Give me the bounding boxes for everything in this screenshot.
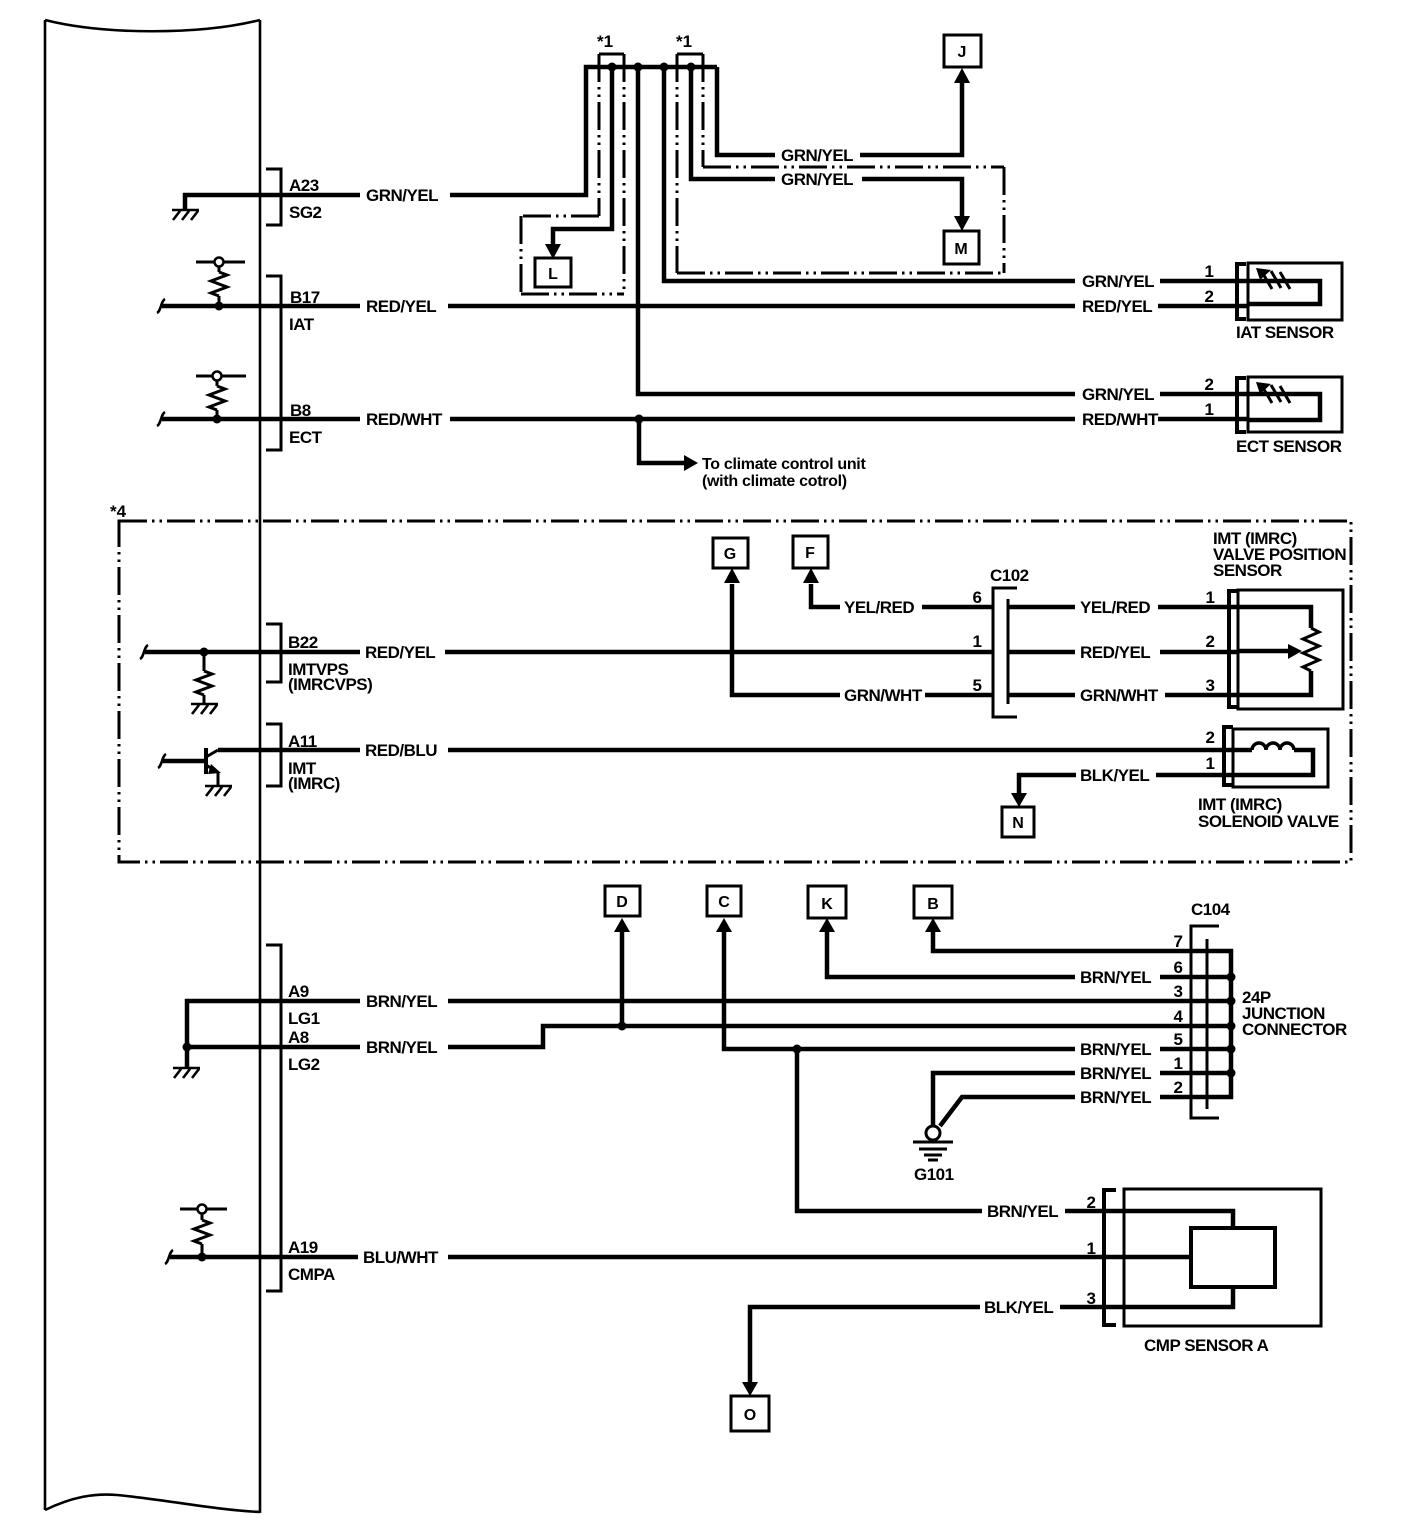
- wire A8 BRN/YEL to C104 pin 4: [281, 1026, 1207, 1047]
- wire branch GRN/YEL to ECT sensor pin 2: [638, 67, 1248, 394]
- pull-up resistor (B17): [218, 267, 221, 306]
- svg-text:BRN/YEL: BRN/YEL: [1080, 1064, 1151, 1083]
- connector bracket B17/B8: [266, 276, 281, 450]
- svg-text:RED/YEL: RED/YEL: [365, 643, 435, 662]
- VPS wiper arrow: [1238, 649, 1288, 654]
- svg-text:C: C: [718, 894, 730, 911]
- svg-text:GRN/YEL: GRN/YEL: [781, 146, 853, 165]
- pull-up node circle (A19): [198, 1205, 207, 1214]
- svg-text:O: O: [744, 1407, 756, 1424]
- connector bracket A9/LG1/A8/LG2/A19/CMPA: [266, 945, 281, 1291]
- svg-text:1: 1: [1206, 754, 1215, 773]
- svg-text:2: 2: [1206, 728, 1215, 747]
- wire BLK/YEL to N: [1019, 775, 1233, 794]
- svg-text:L: L: [548, 266, 558, 283]
- stub hook (B8): [157, 412, 165, 426]
- svg-text:GRN/WHT: GRN/WHT: [844, 686, 923, 705]
- svg-text:3: 3: [1174, 982, 1183, 1001]
- stub hook (A19): [165, 1250, 173, 1264]
- junction dot (A19): [198, 1253, 207, 1262]
- IMT (IMRC) valve position sensor body: [1238, 590, 1343, 709]
- ground (B22): [191, 704, 218, 714]
- 5V pull-up rail (B8): [196, 375, 246, 378]
- svg-text:BRN/YEL: BRN/YEL: [987, 1202, 1058, 1221]
- arrow into O: [742, 1382, 758, 1396]
- CMP sensor connector bracket: [1104, 1190, 1116, 1325]
- svg-text:BRN/YEL: BRN/YEL: [1080, 968, 1151, 987]
- svg-text:K: K: [821, 896, 833, 913]
- solenoid coil: [1233, 750, 1313, 775]
- svg-text:A8: A8: [288, 1028, 309, 1047]
- wire from D to A8 splice: [620, 932, 625, 1026]
- svg-text:F: F: [805, 545, 815, 562]
- wire from C to pin 5 junction: [724, 932, 797, 1049]
- wire GRN/WHT from G to C102: [732, 584, 993, 695]
- connector B: [914, 886, 952, 918]
- svg-text:ECT SENSOR: ECT SENSOR: [1236, 437, 1342, 456]
- svg-text:GRN/YEL: GRN/YEL: [1082, 272, 1154, 291]
- svg-text:C104: C104: [1191, 900, 1231, 919]
- arrow (to climate control unit): [684, 455, 698, 471]
- connector bracket A23/SG2: [266, 169, 281, 225]
- wire B22 internal: [145, 650, 281, 655]
- connector D: [605, 886, 640, 916]
- svg-text:SG2: SG2: [289, 203, 322, 222]
- connector O: [731, 1396, 769, 1431]
- wire A11 RED/BLU to solenoid pin 2: [218, 748, 1233, 753]
- svg-text:RED/WHT: RED/WHT: [1082, 410, 1159, 429]
- connector K: [808, 886, 846, 918]
- svg-text:C102: C102: [990, 566, 1029, 585]
- ground (LG1/LG2): [173, 1068, 200, 1078]
- svg-text:B22: B22: [288, 633, 318, 652]
- splice junction dots on GRN/YEL bus: [608, 63, 617, 72]
- wire YEL/RED to F: [811, 584, 993, 607]
- svg-text:LG2: LG2: [288, 1055, 320, 1074]
- stub hook (B22): [140, 645, 148, 659]
- svg-text:1: 1: [1205, 262, 1214, 281]
- connector J: [944, 35, 981, 67]
- svg-text:D: D: [616, 894, 628, 911]
- connector C: [707, 886, 741, 916]
- arrow into C: [716, 918, 732, 932]
- ECM/PCM module body: [45, 20, 260, 1513]
- wire RED/YEL C102 to VPS pin 2: [1008, 650, 1238, 655]
- arrow into B: [925, 918, 941, 932]
- svg-text:BLK/YEL: BLK/YEL: [1080, 766, 1149, 785]
- wire B8 internal: [162, 417, 281, 422]
- svg-text:*4: *4: [110, 502, 127, 521]
- svg-text:BRN/YEL: BRN/YEL: [1080, 1040, 1151, 1059]
- arrow into G: [724, 568, 740, 583]
- arrow into K: [819, 918, 835, 932]
- wire A23 GRN/YEL to splice bus: [281, 67, 717, 195]
- wire A9 BRN/YEL to C104 pin 3: [281, 999, 1207, 1004]
- IAT thermistor element: [1248, 281, 1320, 304]
- wire branch GRN/YEL to connector M: [691, 67, 962, 218]
- svg-text:4: 4: [1174, 1007, 1184, 1026]
- junction dot (LG2 ground): [183, 1043, 192, 1052]
- svg-text:B: B: [927, 896, 939, 913]
- junction dots (C104 bus): [1227, 973, 1236, 982]
- connector bracket B22: [266, 624, 281, 682]
- wire B to C104 pin 7: [933, 932, 1207, 951]
- wire BRN/YEL to CMP sensor pin 2: [797, 1049, 1233, 1228]
- svg-text:G101: G101: [914, 1165, 954, 1184]
- 5V pull-up rail (B17): [196, 261, 245, 264]
- svg-text:CMPA: CMPA: [288, 1265, 335, 1284]
- svg-text:BRN/YEL: BRN/YEL: [366, 992, 437, 1011]
- wire branch GRN/YEL to connector J: [717, 67, 962, 155]
- ECT sensor connector bracket: [1237, 378, 1246, 432]
- wire BRN/YEL K to C104 pin 6: [827, 932, 1207, 977]
- wire B17 RED/YEL to IAT sensor pin 2: [281, 304, 1248, 309]
- svg-text:2: 2: [1206, 632, 1215, 651]
- pull-up node circle (B17): [215, 258, 224, 267]
- VPS potentiometer: [1238, 607, 1311, 695]
- svg-text:RED/BLU: RED/BLU: [365, 741, 437, 760]
- dash-dot harness boundary *4: [119, 521, 1351, 862]
- svg-text:GRN/WHT: GRN/WHT: [1080, 686, 1159, 705]
- svg-text:A23: A23: [289, 176, 319, 195]
- svg-text:G: G: [724, 546, 736, 563]
- junction dot (climate branch): [635, 415, 644, 424]
- svg-text:BLK/YEL: BLK/YEL: [984, 1298, 1053, 1317]
- svg-text:5: 5: [973, 676, 982, 695]
- wire GRN/WHT C102 to VPS pin 3: [1008, 693, 1238, 698]
- svg-text:IAT: IAT: [289, 315, 315, 334]
- wire SG2 internal ground lead: [185, 195, 281, 209]
- wire B17 internal: [162, 304, 281, 309]
- svg-text:*1: *1: [597, 32, 613, 51]
- svg-text:A19: A19: [288, 1238, 318, 1257]
- svg-text:To climate control unit: To climate control unit: [702, 456, 866, 473]
- wire A19 internal: [170, 1255, 281, 1260]
- pull-up resistor (A19): [201, 1214, 204, 1257]
- svg-text:(IMRC): (IMRC): [288, 774, 340, 793]
- dash-dot harness outline *1 (right, around M): [677, 54, 1004, 273]
- wire branch GRN/YEL to IAT sensor pin 1: [664, 67, 1248, 281]
- svg-text:CONNECTOR: CONNECTOR: [1242, 1020, 1347, 1039]
- svg-text:1: 1: [1174, 1054, 1183, 1073]
- wire to climate control unit: [639, 419, 684, 463]
- svg-text:SOLENOID VALVE: SOLENOID VALVE: [1198, 812, 1339, 831]
- IMT solenoid connector bracket: [1224, 727, 1233, 785]
- svg-text:3: 3: [1206, 676, 1215, 695]
- CMP sensor element: [1191, 1228, 1275, 1287]
- pull-up resistor (B8): [216, 381, 219, 419]
- connector C102: [993, 588, 1017, 717]
- svg-text:(IMRCVPS): (IMRCVPS): [288, 675, 372, 694]
- svg-text:5: 5: [1174, 1030, 1183, 1049]
- svg-text:1: 1: [1087, 1239, 1096, 1258]
- arrow into F: [803, 568, 819, 583]
- svg-text:GRN/YEL: GRN/YEL: [366, 186, 438, 205]
- transistor Q (IMT driver): [163, 759, 206, 764]
- svg-text:SENSOR: SENSOR: [1213, 561, 1282, 580]
- svg-text:IAT SENSOR: IAT SENSOR: [1236, 323, 1334, 342]
- arrow into D: [614, 918, 630, 932]
- connector C104: [1191, 926, 1219, 1118]
- svg-text:RED/YEL: RED/YEL: [366, 297, 436, 316]
- svg-text:2: 2: [1205, 287, 1214, 306]
- svg-text:3: 3: [1087, 1289, 1096, 1308]
- transistor Q (IMT driver) base hook: [158, 754, 166, 768]
- connector N: [1002, 807, 1034, 837]
- svg-text:CMP SENSOR A: CMP SENSOR A: [1144, 1336, 1269, 1355]
- C104 internal junction bus: [1207, 951, 1231, 1097]
- wire B8 RED/WHT to ECT sensor pin 1: [281, 417, 1248, 422]
- svg-text:1: 1: [1205, 400, 1214, 419]
- svg-text:LG1: LG1: [288, 1009, 320, 1028]
- ground (SG2): [172, 210, 199, 220]
- connector F: [793, 536, 828, 568]
- svg-text:RED/YEL: RED/YEL: [1082, 297, 1152, 316]
- svg-text:*1: *1: [676, 32, 692, 51]
- connector bracket A11: [266, 724, 281, 786]
- svg-text:J: J: [958, 44, 967, 61]
- svg-text:2: 2: [1174, 1078, 1183, 1097]
- IAT sensor connector bracket: [1237, 264, 1246, 319]
- junction dot (D/A8): [618, 1022, 627, 1031]
- ECT thermistor element: [1248, 394, 1320, 420]
- wire BRN/YEL G101 to C104 pin 1: [933, 1073, 1207, 1125]
- arrow into L: [545, 244, 561, 259]
- svg-text:GRN/YEL: GRN/YEL: [781, 170, 853, 189]
- ground (A11 emitter): [205, 786, 232, 796]
- wire branch to connector L: [553, 67, 612, 246]
- svg-text:M: M: [954, 241, 967, 258]
- svg-text:1: 1: [973, 632, 982, 651]
- svg-text:GRN/YEL: GRN/YEL: [1082, 385, 1154, 404]
- CMP sensor A body: [1124, 1189, 1321, 1326]
- junction dot (C/CMP branch): [793, 1045, 802, 1054]
- stub hook (B17): [157, 299, 165, 313]
- svg-text:YEL/RED: YEL/RED: [1080, 598, 1150, 617]
- svg-text:7: 7: [1174, 932, 1183, 951]
- IMT (IMRC) solenoid valve body: [1233, 729, 1328, 787]
- pull-up node circle (B8): [213, 372, 222, 381]
- svg-text:RED/WHT: RED/WHT: [366, 410, 443, 429]
- svg-text:2: 2: [1205, 375, 1214, 394]
- wire LG1/LG2 internal ground lead: [187, 1001, 281, 1067]
- junction dot (B17): [215, 302, 224, 311]
- junction dot (B8): [213, 415, 222, 424]
- wire BRN/YEL G101 to C104 pin 2: [940, 1097, 1207, 1126]
- wire BRN/YEL to C104 pin 5: [797, 1047, 1207, 1052]
- wire BLK/YEL from CMP pin 3 to O: [750, 1287, 1233, 1383]
- connector G: [713, 538, 748, 568]
- pull-down resistor (B22): [203, 652, 206, 704]
- IAT sensor body: [1248, 263, 1342, 320]
- svg-text:6: 6: [1174, 958, 1183, 977]
- svg-text:YEL/RED: YEL/RED: [844, 598, 914, 617]
- IMT VPS connector bracket: [1229, 591, 1238, 707]
- wire YEL/RED C102 to VPS pin 1: [1008, 605, 1238, 610]
- dash-dot harness outline *1 (left, around L): [521, 54, 624, 294]
- svg-text:ECT: ECT: [289, 428, 323, 447]
- svg-text:RED/YEL: RED/YEL: [1080, 643, 1150, 662]
- ground G101: [926, 1126, 940, 1140]
- svg-text:6: 6: [973, 588, 982, 607]
- connector L: [535, 258, 571, 287]
- wire A19 BLU/WHT to CMP sensor pin 1: [281, 1255, 1191, 1260]
- arrow into M: [954, 216, 970, 231]
- 5V pull-up rail (A19): [180, 1208, 227, 1211]
- wire B22 RED/YEL to C102: [281, 650, 993, 655]
- junction dot (B22): [200, 648, 209, 657]
- ECT sensor body: [1248, 377, 1342, 432]
- arrow into J: [954, 68, 970, 83]
- svg-text:1: 1: [1206, 588, 1215, 607]
- svg-text:2: 2: [1087, 1193, 1096, 1212]
- svg-text:BLU/WHT: BLU/WHT: [363, 1248, 439, 1267]
- svg-text:BRN/YEL: BRN/YEL: [366, 1038, 437, 1057]
- svg-text:(with climate cotrol): (with climate cotrol): [702, 473, 847, 490]
- arrow into N: [1011, 793, 1027, 807]
- svg-text:A9: A9: [288, 982, 309, 1001]
- svg-text:N: N: [1012, 815, 1024, 832]
- connector M: [944, 231, 979, 264]
- svg-text:BRN/YEL: BRN/YEL: [1080, 1088, 1151, 1107]
